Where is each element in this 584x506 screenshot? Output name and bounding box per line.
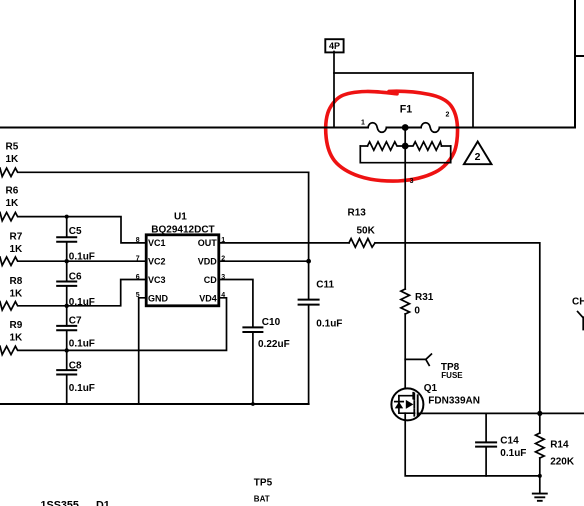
svg-text:1K: 1K bbox=[10, 244, 24, 255]
svg-text:C5: C5 bbox=[69, 226, 82, 237]
svg-text:VC3: VC3 bbox=[148, 275, 166, 285]
svg-text:2: 2 bbox=[475, 151, 481, 163]
svg-text:4: 4 bbox=[221, 292, 225, 299]
svg-text:220K: 220K bbox=[550, 457, 575, 468]
svg-text:C11: C11 bbox=[316, 280, 334, 291]
svg-text:C6: C6 bbox=[69, 272, 82, 283]
svg-text:VD4: VD4 bbox=[199, 293, 217, 303]
svg-text:2: 2 bbox=[221, 256, 225, 263]
svg-text:R8: R8 bbox=[10, 276, 23, 287]
svg-text:CH: CH bbox=[572, 296, 584, 307]
svg-text:0.1uF: 0.1uF bbox=[69, 297, 95, 308]
svg-text:GND: GND bbox=[148, 293, 169, 303]
svg-text:F1: F1 bbox=[400, 104, 412, 116]
svg-text:VC1: VC1 bbox=[148, 238, 166, 248]
svg-text:4P: 4P bbox=[329, 41, 340, 51]
svg-text:VDD: VDD bbox=[198, 257, 218, 267]
svg-text:0.1uF: 0.1uF bbox=[500, 448, 526, 459]
svg-text:BQ29412DCT: BQ29412DCT bbox=[151, 224, 214, 235]
svg-text:Q1: Q1 bbox=[424, 383, 438, 394]
svg-text:0.1uF: 0.1uF bbox=[69, 383, 95, 394]
svg-text:8: 8 bbox=[136, 237, 140, 244]
svg-text:D1: D1 bbox=[96, 500, 110, 506]
svg-text:U1: U1 bbox=[174, 211, 187, 222]
svg-text:5: 5 bbox=[136, 292, 140, 299]
svg-text:0.1uF: 0.1uF bbox=[316, 319, 342, 330]
svg-text:0.1uF: 0.1uF bbox=[69, 252, 95, 263]
svg-text:3: 3 bbox=[410, 178, 414, 185]
svg-text:C14: C14 bbox=[500, 436, 519, 447]
svg-text:1K: 1K bbox=[6, 198, 20, 209]
svg-text:1: 1 bbox=[221, 237, 225, 244]
svg-text:R14: R14 bbox=[550, 439, 569, 450]
svg-text:0: 0 bbox=[414, 305, 420, 316]
svg-text:R5: R5 bbox=[6, 142, 19, 153]
svg-text:C8: C8 bbox=[69, 360, 82, 371]
svg-text:3: 3 bbox=[221, 274, 225, 281]
svg-text:6: 6 bbox=[136, 274, 140, 281]
svg-text:BAT: BAT bbox=[254, 494, 270, 503]
svg-text:C7: C7 bbox=[69, 316, 82, 327]
svg-text:R9: R9 bbox=[10, 320, 23, 331]
svg-text:CD: CD bbox=[204, 275, 217, 285]
svg-text:R31: R31 bbox=[415, 292, 434, 303]
svg-text:R6: R6 bbox=[6, 186, 19, 197]
svg-text:1K: 1K bbox=[6, 154, 20, 165]
svg-text:FDN339AN: FDN339AN bbox=[428, 395, 480, 406]
svg-text:1K: 1K bbox=[10, 288, 24, 299]
svg-text:50K: 50K bbox=[357, 226, 376, 237]
svg-text:VC2: VC2 bbox=[148, 257, 166, 267]
svg-text:1K: 1K bbox=[10, 332, 24, 343]
svg-text:TP5: TP5 bbox=[254, 477, 273, 488]
svg-text:1SS355: 1SS355 bbox=[41, 500, 79, 506]
svg-text:C10: C10 bbox=[262, 317, 281, 328]
svg-text:R13: R13 bbox=[348, 208, 367, 219]
svg-text:7: 7 bbox=[136, 256, 140, 263]
svg-text:1: 1 bbox=[361, 119, 365, 126]
svg-text:R7: R7 bbox=[10, 232, 23, 243]
svg-text:OUT: OUT bbox=[198, 238, 218, 248]
svg-text:2: 2 bbox=[446, 111, 450, 118]
svg-text:0.1uF: 0.1uF bbox=[69, 338, 95, 349]
svg-text:0.22uF: 0.22uF bbox=[258, 339, 290, 350]
svg-text:FUSE: FUSE bbox=[441, 371, 463, 380]
